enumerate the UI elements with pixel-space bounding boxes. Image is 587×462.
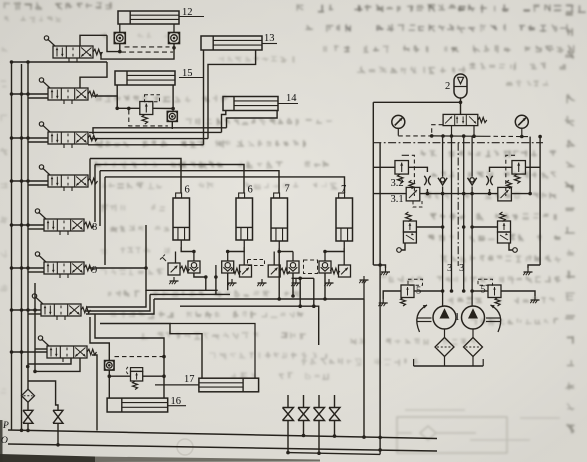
drain mid extra (261, 279, 263, 283)
dark scan edge bottom-left (0, 454, 95, 462)
svg-text:P: P (2, 421, 9, 431)
wire relief 5 right to riser (472, 290, 488, 292)
drain right drop (363, 276, 365, 280)
middle bus y306 (292, 277, 314, 279)
enclosure dash-dot divider (457, 143, 459, 266)
cylinder 12 (118, 11, 179, 24)
meter-out valve assembly 2 throttle (240, 265, 252, 277)
check valve on riser 2 (468, 178, 477, 185)
valve supply stub wires (12, 93, 49, 95)
pump 1 left (433, 306, 456, 329)
valve 3.1 right twin (507, 180, 512, 189)
cylinder 6 first (173, 198, 190, 240)
top bus wire (12, 61, 108, 63)
third trunk line (34, 283, 36, 352)
wire below locks (119, 44, 121, 52)
wire into cylinder 16 ports (108, 376, 110, 398)
svg-text:1: 1 (455, 312, 460, 323)
wire lock down to bus (171, 121, 173, 129)
wire relief 3.2 output (409, 167, 428, 172)
staircase wire a (86, 290, 146, 307)
wire third trunk stub (33, 370, 37, 374)
dashed box between assemblies (304, 260, 318, 274)
meter-out valve assembly 2 check valve (222, 261, 234, 273)
wire relief 3.2 input (373, 166, 395, 168)
directional valve 8th (47, 346, 87, 358)
return branch line (288, 453, 380, 455)
pilot dashed to lock (129, 110, 168, 126)
relief right twin dashed pilot (506, 155, 515, 196)
cylinder 17 lower (199, 378, 259, 392)
svg-text:9: 9 (92, 265, 97, 276)
trunk junction dots (10, 60, 14, 64)
meter-out valve assembly 2 drain (231, 279, 233, 283)
wire cylinder 15 left port (116, 85, 118, 108)
pilot dashed line upper (125, 46, 170, 48)
wire cylinder 15 right port (172, 85, 174, 109)
relief valve 5 right (488, 285, 501, 298)
cylinder 15 (115, 71, 175, 85)
sequence valve left (406, 212, 412, 222)
staircase wire c (92, 355, 97, 431)
suction filter right (464, 338, 483, 357)
nest bus h7 (100, 171, 279, 193)
svg-text:17: 17 (184, 374, 195, 385)
wire relief 5 right drain (501, 291, 535, 296)
wire lock 16 bottom (108, 370, 110, 376)
svg-text:3.1: 3.1 (391, 194, 404, 205)
sequence valve right drain (509, 243, 513, 250)
directional valve 2 (48, 88, 88, 100)
nest bus h4 (88, 144, 204, 146)
wire cylinder 13 right port (208, 50, 256, 139)
quick coupler right (486, 176, 488, 185)
svg-text:O: O (1, 436, 8, 446)
right drop wire 1 (363, 299, 365, 437)
bleed-through diagram box bottom right (397, 410, 560, 453)
svg-text:3.2: 3.2 (391, 178, 404, 189)
counterbalance valve near 16 (131, 368, 143, 372)
pilot dashed line lower (121, 51, 173, 53)
main pressure line (373, 193, 406, 195)
pump 2 right (462, 306, 485, 329)
pilot directional valve top (443, 114, 478, 125)
pilot-operated check valve lock left of 12 (114, 33, 125, 44)
middle trunk line (21, 64, 23, 430)
svg-text:14: 14 (286, 93, 297, 104)
relief 3.2 dashed pilot (405, 155, 414, 196)
directional valve 7th (41, 304, 81, 316)
P supply line (8, 430, 437, 439)
left supply trunk line (11, 62, 13, 430)
staircase wire d (100, 324, 202, 379)
wire cylinder 13 left port (203, 50, 205, 145)
svg-text:7: 7 (341, 184, 346, 195)
relief valve 3.2 right twin (512, 161, 526, 175)
lower bus 3 (154, 298, 364, 300)
wire rod port cylinder 7 first (278, 248, 280, 299)
pilot dashed lock 16 (115, 356, 165, 358)
wire cylinder 14 left port (222, 111, 226, 133)
suction filter left (435, 338, 454, 357)
second trunk line (27, 62, 29, 389)
check valve lock below 15 (167, 111, 177, 121)
left frame drain (373, 265, 385, 268)
counterbalance valve below 15 (140, 102, 153, 115)
relief valve 5 left (401, 285, 414, 298)
wire through counterbalance 16 (109, 375, 130, 377)
wire to lock 16 (90, 317, 109, 361)
meter-out valve assembly 3 drain (295, 279, 297, 283)
cylinder 7 first (271, 198, 288, 241)
meter-out valve assembly 4 throttle (339, 265, 351, 277)
check valve on riser 1 (438, 178, 447, 185)
enclosure dash-dot line (373, 142, 543, 144)
nest bus h6 (95, 165, 244, 194)
riser pump 2 (471, 136, 473, 177)
wire relief 5 left to riser (414, 290, 443, 292)
cylinder 13 (201, 36, 262, 50)
lower bus 2 (86, 294, 150, 311)
wire accumulator bus (373, 101, 460, 103)
wire rod port cylinder 6 second (228, 247, 245, 252)
O return line (8, 444, 437, 451)
tank filter left (22, 389, 35, 402)
wire through counterbalance valve (117, 107, 140, 109)
cylinder 14 (223, 97, 278, 111)
pressure gauge right (515, 115, 528, 128)
svg-text:7: 7 (285, 184, 290, 195)
svg-text:3: 3 (459, 263, 464, 274)
inner right line (529, 137, 531, 194)
wire to 16 subcircuit right (95, 314, 164, 376)
svg-text:2: 2 (445, 81, 450, 92)
riser return 1 (451, 136, 453, 291)
gauge dashed line (398, 135, 431, 137)
wire trunk stub right (28, 359, 71, 365)
shut-off valve mid 4 (329, 408, 340, 415)
svg-text:13: 13 (264, 33, 275, 44)
svg-text:8: 8 (92, 222, 97, 233)
wire cylinder 12 ports (119, 24, 121, 33)
wire relief 5 left drain (383, 291, 401, 299)
meter-out valve assembly 4 check valve (319, 261, 331, 273)
meter-out valve assembly 3 throttle (268, 265, 280, 277)
accumulator 2 (454, 74, 467, 98)
pilot valve dashed control line (432, 125, 443, 136)
wire accumulator (460, 98, 462, 114)
wire sequence right to riser (472, 226, 498, 228)
shut-off valve mid 3 (314, 408, 325, 415)
meter-out valve assembly 4 drain (328, 279, 330, 283)
meter-out valve assembly 3 check valve (287, 261, 299, 273)
riser pump 1 (442, 136, 444, 177)
nest bus h5 (90, 159, 181, 194)
pressure gauge left (392, 115, 405, 128)
ports line (432, 135, 486, 137)
right frame line (539, 137, 541, 265)
wire lock to valve 1 (107, 35, 119, 51)
nest bus h2 (89, 131, 222, 133)
wire relief right input (526, 166, 541, 168)
directional valve 1 (53, 46, 93, 58)
right drop wire 2 (379, 143, 381, 454)
pilot valve bottom stubs (451, 126, 453, 136)
rod of cylinder 17 (155, 384, 199, 386)
shut-off valve mid 1 (283, 408, 294, 415)
lock valve above cylinder 16 (105, 361, 115, 371)
wire to cylinder 17 lower (170, 324, 255, 379)
meter-out valve assembly 1 throttle (168, 263, 180, 275)
cylinder 7 second (336, 198, 353, 241)
directional valve 9 (44, 262, 84, 274)
shut-off valve mid 2 (298, 408, 309, 415)
sequence valve left drain (402, 243, 406, 250)
right frame drain (528, 265, 540, 268)
pump station left frame (372, 102, 374, 265)
cylinder 16 (107, 398, 168, 412)
shut-off valve left 1 (23, 410, 33, 417)
directional valve 8 (44, 219, 84, 231)
cylinder 6 second (236, 198, 253, 240)
directional valve 3 (48, 132, 88, 144)
pilot-operated check valve lock right of 12 (169, 33, 180, 44)
valve 3.1 dashed drain (413, 201, 422, 207)
nest bus h8 (105, 177, 345, 193)
lower bus 1 (146, 225, 218, 290)
directional valve 4 (48, 175, 88, 187)
svg-text:6: 6 (248, 185, 253, 196)
shut-off valve left 2 (53, 410, 63, 417)
wire rod port cylinder 6 first (181, 247, 194, 252)
wire rod port cylinder 7 second (325, 248, 344, 252)
svg-text:6: 6 (185, 185, 190, 196)
wire sequence left to riser (416, 226, 442, 228)
valve 3.1 (409, 180, 414, 189)
riser return 2 (463, 136, 465, 291)
wire relief right output (490, 167, 513, 172)
wire cylinder 14 right port (227, 111, 278, 128)
meter-out valve assembly 1 check valve (188, 261, 200, 273)
meter-out valve assembly 1 drain (173, 277, 175, 281)
wire valve 2 to cylinder 15 (80, 62, 107, 88)
sequence valve right (500, 212, 506, 222)
svg-text:5: 5 (481, 285, 486, 296)
tank line (444, 357, 446, 367)
svg-text:3: 3 (447, 263, 452, 274)
nest bus h1 (93, 128, 227, 134)
nest bus h3 (90, 138, 208, 140)
relief valve 3.2 (395, 161, 409, 175)
quick coupler left (424, 176, 426, 185)
